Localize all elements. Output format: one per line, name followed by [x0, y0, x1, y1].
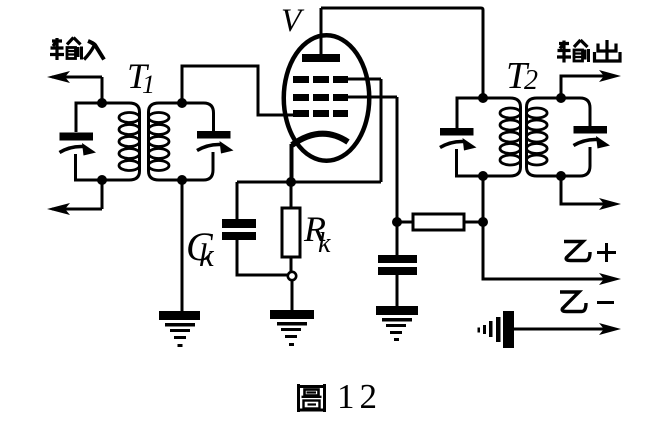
svg-text:1: 1 [142, 70, 155, 99]
node T1 secondary bottom [177, 175, 187, 185]
svg-text:2: 2 [524, 65, 538, 96]
label T2 [506, 55, 538, 97]
wire T1 secondary bottom to ground [181, 180, 184, 311]
wire cathode rail [237, 181, 381, 184]
resistor screen dropping [397, 214, 483, 230]
svg-text:12: 12 [337, 377, 382, 416]
wire Rk junction to ground [291, 280, 294, 310]
label 乙− [560, 292, 614, 312]
node screen junction [392, 217, 402, 227]
label 乙+ [564, 242, 616, 263]
tube V plate [302, 8, 340, 62]
transformer T1 secondary winding [148, 103, 182, 180]
ground (below screen bypass capacitor) [376, 306, 418, 341]
transformer T2 secondary winding [527, 98, 562, 176]
wire T1 primary bottom to input bottom [101, 180, 104, 209]
wire plate to T2 primary (top rail) [321, 8, 483, 98]
caption 圖 12 [299, 377, 383, 416]
wire screen grid down [396, 97, 399, 222]
tube V cathode [292, 134, 349, 182]
output terminal arrow top [561, 70, 621, 98]
node T1 primary top [97, 98, 107, 108]
input terminal arrow top [47, 71, 102, 83]
input terminal arrow bottom [47, 203, 102, 215]
variable capacitor (T2 primary tuning) [440, 98, 483, 176]
node screen resistor / B+ line [478, 217, 488, 227]
node T1 secondary top [177, 98, 187, 108]
variable capacitor (antenna tuning, T1 primary) [60, 103, 103, 180]
label 输入 (input) [50, 38, 104, 61]
tube V control grid (g1) [293, 110, 348, 117]
label Ck [186, 224, 215, 274]
transformer T1 primary winding [102, 103, 140, 180]
variable capacitor (T2 secondary tuning) [561, 98, 610, 176]
B+ terminal arrow [599, 273, 621, 285]
node T1 primary bottom [97, 175, 107, 185]
svg-text:k: k [199, 238, 215, 274]
svg-text:k: k [318, 228, 331, 259]
tube V envelope [284, 35, 370, 161]
B- terminal wire and arrow [514, 323, 621, 335]
capacitor Ck (cathode bypass) [222, 182, 288, 275]
label Rk [303, 209, 331, 259]
wire suppressor to cathode [380, 79, 383, 182]
label T1 [127, 56, 155, 99]
node cathode junction [286, 177, 296, 187]
node T2 secondary bottom [556, 171, 566, 181]
node Rk/Ck junction (ring) [288, 272, 296, 280]
resistor Rk (cathode bias) [282, 182, 300, 272]
ground (below T1 secondary) [159, 311, 200, 347]
variable capacitor (T1 secondary tuning) [182, 103, 234, 180]
ground (below Rk) [270, 310, 314, 346]
wire input top to T1 primary top [101, 77, 104, 103]
transformer T2 primary winding [483, 98, 521, 176]
tube V screen grid (g2) [293, 94, 397, 101]
node T2 primary bottom [478, 171, 488, 181]
wire B+ rail [483, 176, 614, 279]
node T2 secondary top [556, 93, 566, 103]
tube V suppressor grid (g3) [293, 76, 381, 83]
output terminal arrow bottom [561, 176, 621, 210]
wire T1 secondary top to control grid of V [182, 66, 293, 115]
label 输出 (output) [557, 40, 620, 63]
earth ground (B-) [478, 311, 515, 348]
node T2 primary top [478, 93, 488, 103]
capacitor screen bypass [378, 222, 417, 306]
